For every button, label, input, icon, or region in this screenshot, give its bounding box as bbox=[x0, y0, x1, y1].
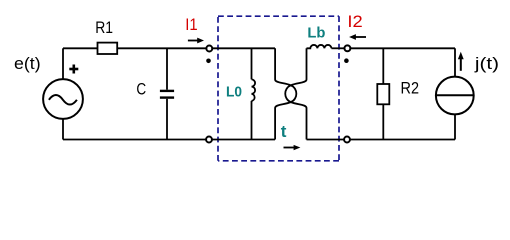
R2 branch top wire bbox=[382, 48, 384, 84]
inductor Lb coil bbox=[307, 45, 332, 48]
R2 branch bottom wire bbox=[382, 104, 384, 139]
wire j(t) vertical top bbox=[454, 48, 456, 77]
svg-text:e(t): e(t) bbox=[14, 54, 41, 73]
svg-text:I2: I2 bbox=[347, 12, 362, 31]
current I2 arrow bbox=[349, 34, 366, 40]
ratio t arrow bbox=[284, 145, 301, 150]
polarity dot left bbox=[206, 59, 211, 64]
source e(t) circle bbox=[43, 79, 83, 119]
wire L0 bottom bbox=[251, 101, 253, 140]
node bottom-left terminal bbox=[206, 137, 212, 143]
wire R1 to node I1 bbox=[117, 47, 206, 49]
wire bottom node I2' to transformer bbox=[307, 139, 344, 141]
current I1 arrow bbox=[188, 38, 204, 44]
node bottom-right terminal bbox=[344, 137, 350, 143]
capacitor C plates bbox=[160, 91, 174, 98]
resistor R1 bbox=[98, 43, 118, 54]
source e(t) sine wave bbox=[49, 95, 77, 105]
resistor R2 bbox=[377, 84, 389, 104]
inductor L0 coil bbox=[252, 79, 256, 101]
svg-text:R1: R1 bbox=[95, 18, 113, 37]
transformer secondary winding conductor bbox=[285, 48, 306, 139]
svg-text:R2: R2 bbox=[401, 78, 420, 97]
node I1 terminal bbox=[206, 46, 212, 52]
capacitor C branch bottom wire bbox=[166, 99, 168, 140]
polarity dot right bbox=[344, 58, 349, 63]
wire L0 top bbox=[251, 48, 253, 79]
wire bottom node to transformer bbox=[212, 139, 275, 141]
svg-text:Lb: Lb bbox=[307, 26, 325, 42]
wire node I1 to transformer left bbox=[212, 47, 275, 49]
capacitor C branch top wire bbox=[166, 48, 168, 89]
wire bottom right bbox=[350, 139, 455, 141]
transformer primary winding conductor bbox=[275, 48, 296, 139]
wire e(t) vertical down bbox=[62, 119, 64, 140]
source j(t) direction arrow bbox=[458, 52, 464, 71]
svg-text:t: t bbox=[281, 122, 287, 141]
wire top left from source to R1 bbox=[63, 47, 98, 49]
svg-text:C: C bbox=[136, 80, 146, 99]
svg-text:j(t): j(t) bbox=[474, 54, 499, 73]
wire node I2 to corner j(t) bbox=[351, 47, 456, 49]
wire j(t) vertical bottom bbox=[454, 114, 456, 139]
source j(t) bar bbox=[436, 94, 474, 96]
node I2 terminal bbox=[344, 45, 350, 51]
source j(t) circle bbox=[436, 77, 474, 115]
svg-text:I1: I1 bbox=[185, 15, 197, 34]
wire bottom left bbox=[63, 139, 206, 141]
source e(t) plus sign bbox=[69, 65, 78, 74]
svg-text:L0: L0 bbox=[226, 84, 242, 100]
wire e(t) vertical up bbox=[62, 48, 64, 79]
dashed quadripole box bbox=[218, 16, 339, 161]
wire Lb to node I2 bbox=[331, 47, 344, 49]
